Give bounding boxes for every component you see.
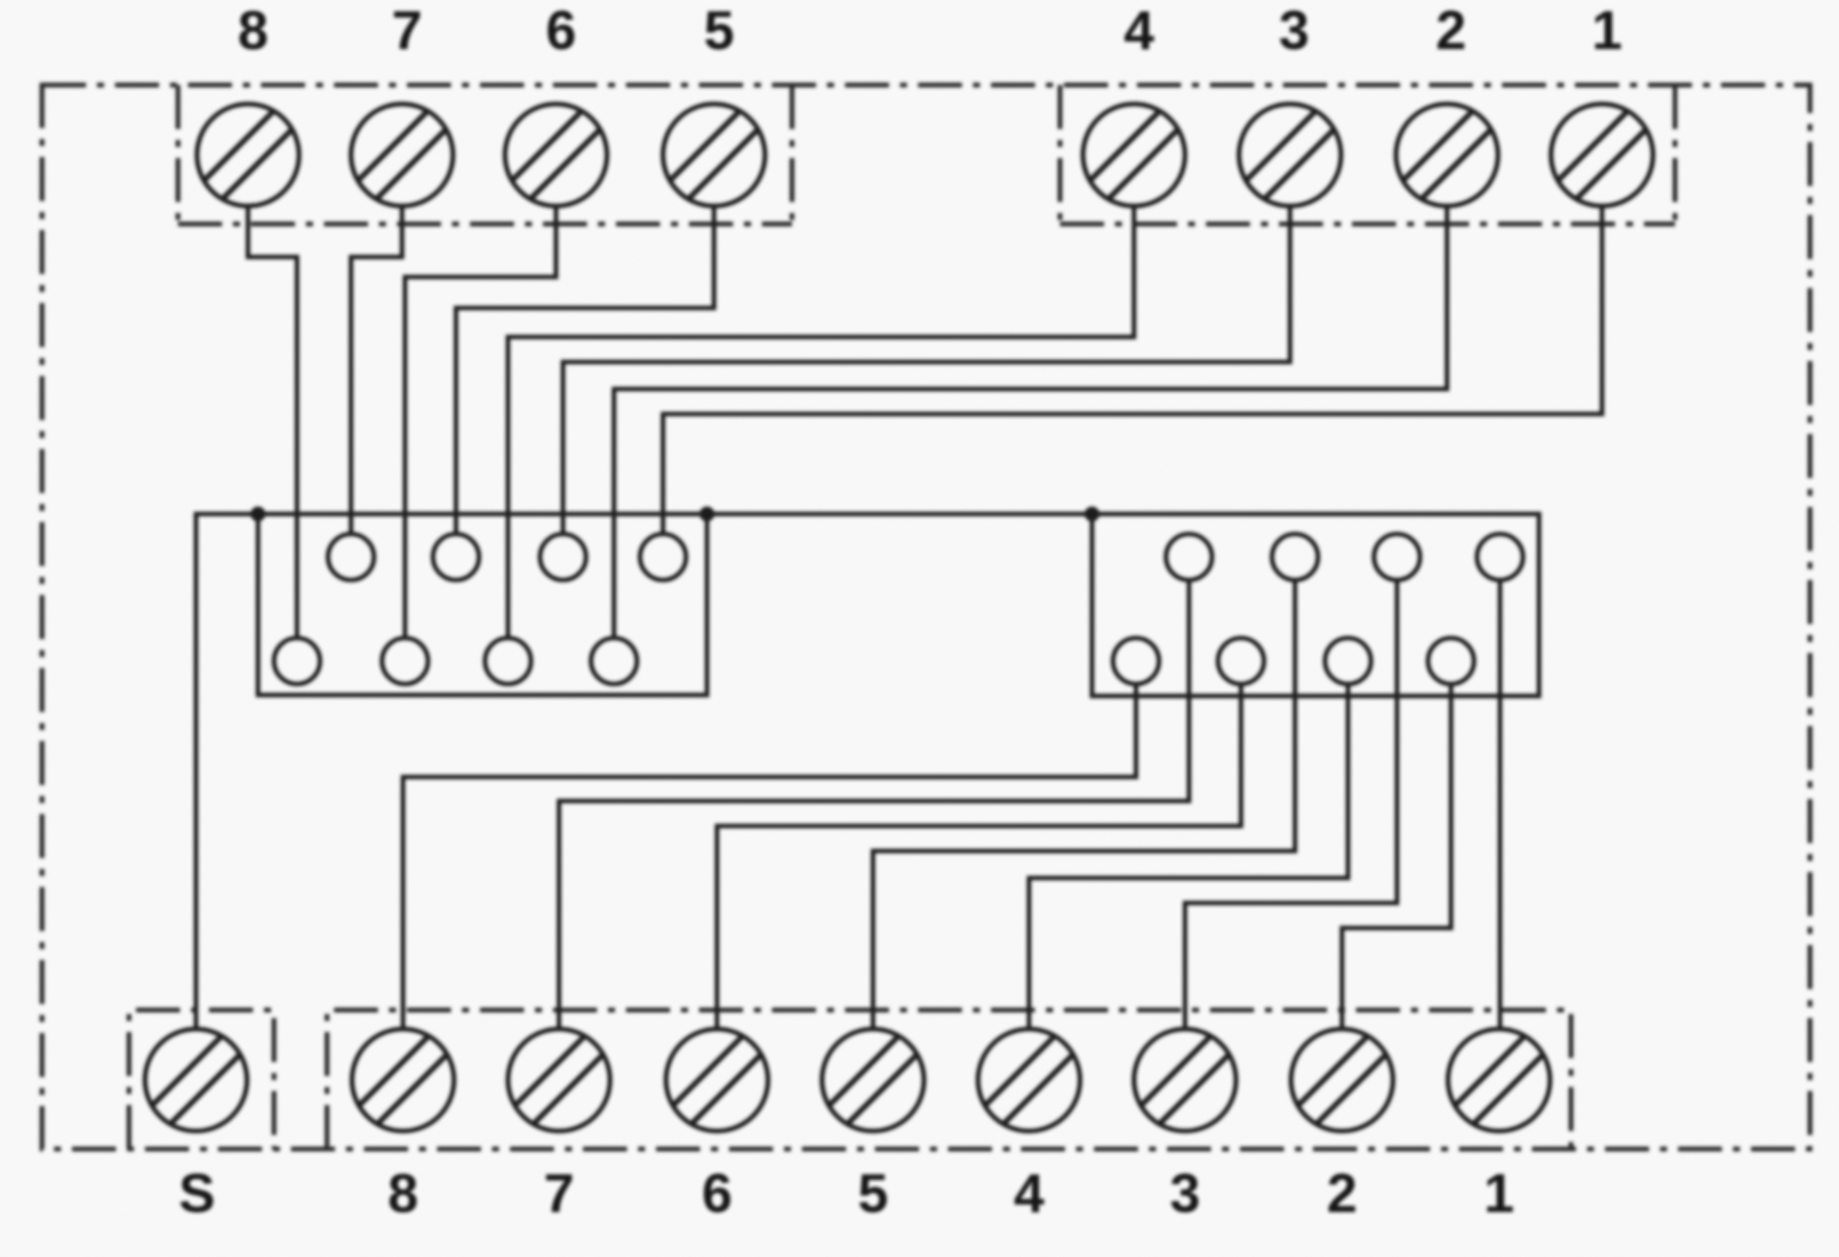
screw terminal bottom 5 bbox=[822, 1029, 924, 1131]
junction X1 shell left bbox=[251, 507, 266, 522]
screw terminal bottom S bbox=[145, 1029, 247, 1131]
terminal strip box top-left (terminals 8-5) bbox=[178, 85, 792, 224]
svg-text:2: 2 bbox=[1327, 1162, 1358, 1224]
wire X2 pin B2 to bottom terminal 6 bbox=[717, 684, 1241, 1029]
X1 pin A3 bbox=[540, 534, 586, 580]
wire top terminal 6 to X1 pin B2 bbox=[405, 206, 556, 638]
wire top terminal 8 to X1 pin B1 bbox=[248, 206, 297, 638]
screw terminal top 4 bbox=[1083, 104, 1185, 206]
connector X2 body (right, pins to bottom terminals) bbox=[1092, 514, 1539, 696]
screw terminal top 5 bbox=[663, 104, 765, 206]
svg-text:2: 2 bbox=[1436, 0, 1467, 61]
svg-text:8: 8 bbox=[238, 0, 269, 61]
wire X2 pin B1 to bottom terminal 8 bbox=[403, 684, 1136, 1029]
wire top terminal 2 to X1 pin B4 bbox=[614, 206, 1447, 638]
screw terminal top 3 bbox=[1239, 104, 1341, 206]
screw terminal bottom 3 bbox=[1134, 1029, 1236, 1131]
svg-text:6: 6 bbox=[702, 1162, 733, 1224]
svg-text:5: 5 bbox=[704, 0, 735, 61]
junction X2 shell left bbox=[1085, 507, 1100, 522]
screw terminal top 2 bbox=[1396, 104, 1498, 206]
X2 pin B2 bbox=[1218, 638, 1264, 684]
svg-text:S: S bbox=[179, 1162, 216, 1224]
wire top terminal 3 to X1 pin A3 bbox=[563, 206, 1290, 534]
screw terminal bottom 7 bbox=[508, 1029, 610, 1131]
X2 pin B1 bbox=[1113, 638, 1159, 684]
screw terminal top 6 bbox=[505, 104, 607, 206]
wire top terminal 1 to X1 pin A4 bbox=[663, 206, 1602, 534]
wire X2 pin B3 to bottom terminal 4 bbox=[1029, 684, 1348, 1029]
X1 pin B2 bbox=[382, 638, 428, 684]
screw terminal top 8 bbox=[197, 104, 299, 206]
wire X2 pin B4 to bottom terminal 2 bbox=[1342, 684, 1451, 1029]
wire top terminal 4 to X1 pin B3 bbox=[508, 206, 1134, 638]
svg-text:8: 8 bbox=[388, 1162, 419, 1224]
screw terminal bottom 1 bbox=[1448, 1029, 1550, 1131]
X1 pin B3 bbox=[485, 638, 531, 684]
screw terminal bottom 8 bbox=[352, 1029, 454, 1131]
svg-text:4: 4 bbox=[1124, 0, 1155, 61]
terminal strip box top-right (terminals 4-1) bbox=[1060, 85, 1675, 224]
shield wire S terminal to X1 shell bbox=[196, 514, 258, 1029]
junction X1 shell right bbox=[700, 507, 715, 522]
screw terminal bottom 6 bbox=[666, 1029, 768, 1131]
X1 pin A2 bbox=[433, 534, 479, 580]
wire X2 pin A2 to bottom terminal 5 bbox=[873, 580, 1295, 1029]
wire top terminal 5 to X1 pin A2 bbox=[456, 206, 714, 534]
svg-text:5: 5 bbox=[858, 1162, 889, 1224]
wire X2 pin A1 to bottom terminal 7 bbox=[559, 580, 1189, 1029]
X1 pin B1 bbox=[274, 638, 320, 684]
wire X2 pin A3 to bottom terminal 3 bbox=[1185, 580, 1397, 1029]
X1 pin B4 bbox=[591, 638, 637, 684]
X2 pin A3 bbox=[1374, 534, 1420, 580]
svg-text:1: 1 bbox=[1592, 0, 1623, 61]
wire X2 pin A4 to bottom terminal 1 bbox=[1498, 580, 1503, 1029]
X2 pin B4 bbox=[1428, 638, 1474, 684]
connector X1 body (left, pins to top terminals) bbox=[258, 514, 707, 695]
svg-text:6: 6 bbox=[546, 0, 577, 61]
X1 pin A1 bbox=[328, 534, 374, 580]
shield link wire X1 shell to X2 shell bbox=[707, 512, 1092, 517]
screw terminal top 1 bbox=[1551, 104, 1653, 206]
svg-text:1: 1 bbox=[1484, 1162, 1515, 1224]
X2 pin A4 bbox=[1477, 534, 1523, 580]
wire top terminal 7 to X1 pin A1 bbox=[351, 206, 402, 534]
X2 pin A2 bbox=[1272, 534, 1318, 580]
svg-text:4: 4 bbox=[1014, 1162, 1045, 1224]
screw terminal bottom 4 bbox=[978, 1029, 1080, 1131]
X2 pin B3 bbox=[1325, 638, 1371, 684]
svg-text:3: 3 bbox=[1170, 1162, 1201, 1224]
svg-text:3: 3 bbox=[1279, 0, 1310, 61]
screw terminal bottom 2 bbox=[1291, 1029, 1393, 1131]
X1 pin A4 bbox=[640, 534, 686, 580]
screw terminal top 7 bbox=[351, 104, 453, 206]
svg-text:7: 7 bbox=[392, 0, 423, 61]
svg-text:7: 7 bbox=[544, 1162, 575, 1224]
X2 pin A1 bbox=[1166, 534, 1212, 580]
terminal strip box bottom S bbox=[129, 1010, 274, 1149]
terminal strip box bottom (terminals 8-1) bbox=[327, 1010, 1571, 1149]
